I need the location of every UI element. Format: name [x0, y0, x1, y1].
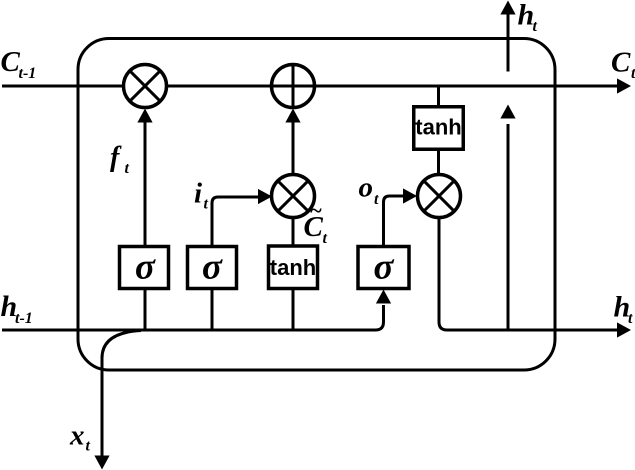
wire C line down to tanh output box [437, 86, 440, 105]
wire i_t arrow (sigma i up and right into multiply node) [212, 197, 266, 246]
svg-text:C: C [611, 47, 631, 79]
wire h_t inner vertical arrow (from output line up to C line) [507, 124, 510, 330]
arrowhead x_t (down) [94, 456, 109, 470]
svg-text:t: t [374, 191, 379, 208]
svg-text:C: C [1, 46, 21, 78]
cell body rounded box [78, 39, 555, 371]
arrowhead o_t [403, 188, 417, 203]
wire candidate multiply up to add node [292, 115, 295, 174]
gate sigma f box [120, 247, 169, 289]
svg-text:t: t [86, 438, 91, 455]
wire h_t-1 line (bottom horizontal, curving up into sigma o) [2, 305, 384, 330]
label f_t [110, 142, 130, 177]
svg-text:x: x [69, 420, 85, 452]
svg-text:f: f [110, 142, 122, 173]
arrowhead f_t [137, 109, 152, 123]
svg-text:t-1: t-1 [19, 65, 37, 82]
wire tanh gate up to multiply node [292, 219, 295, 246]
label x_t [69, 420, 91, 455]
wire f_t arrow (sigma f up to multiply node) [144, 115, 147, 246]
label C~_t (candidate) [304, 198, 328, 248]
arrowhead into add node [285, 109, 300, 123]
multiply node output gate [418, 175, 461, 218]
svg-text:tanh: tanh [270, 255, 316, 280]
wire tanh gate to h line [292, 290, 295, 330]
arrowhead i_t [258, 189, 272, 204]
wire x_t branch curve from h line [102, 331, 141, 459]
svg-text:i: i [194, 178, 202, 210]
label h_t-1 [1, 290, 33, 327]
svg-text:~: ~ [310, 198, 323, 223]
wire sigma i to h line [211, 290, 214, 330]
wire o_t arrow (sigma o up and right into output multiply) [384, 196, 413, 246]
svg-text:t-1: t-1 [15, 310, 33, 327]
gate sigma o box [358, 247, 409, 289]
svg-text:t: t [533, 18, 538, 35]
wire output multiply down and right to h_t [439, 218, 620, 330]
label h_t right [614, 291, 634, 328]
svg-text:σ: σ [135, 247, 156, 288]
label C_t-1 [1, 46, 37, 82]
label C_t [611, 47, 635, 83]
wire tanh output box down to output multiply [437, 149, 440, 175]
svg-text:t: t [125, 160, 130, 177]
gate sigma i box [188, 247, 237, 289]
label h_t top [518, 0, 538, 35]
multiply node input gate [272, 175, 315, 218]
svg-text:t: t [323, 230, 328, 247]
gate tanh box (candidate) [269, 246, 318, 289]
tanh output box [414, 107, 464, 150]
arrowhead h_t inner [500, 105, 515, 119]
svg-text:tanh: tanh [415, 115, 461, 140]
svg-text:σ: σ [202, 247, 223, 288]
svg-text:t: t [631, 65, 635, 82]
svg-text:σ: σ [374, 247, 395, 288]
svg-text:t: t [628, 310, 633, 327]
label o_t [359, 172, 380, 209]
wire sigma f to h line [144, 290, 147, 330]
svg-text:t: t [204, 196, 209, 213]
arrowhead h_t right output [617, 322, 631, 337]
arrowhead h_t top [500, 1, 515, 15]
wire h_t top arrow (out of cell top) [507, 11, 510, 72]
wire C line (cell state, top horizontal) [2, 85, 620, 88]
arrowhead C_t output [617, 78, 631, 93]
multiply node forget gate [124, 65, 167, 108]
label i_t [194, 178, 209, 213]
svg-text:o: o [359, 172, 374, 204]
arrowhead into sigma o [376, 290, 391, 304]
add node [272, 65, 315, 108]
